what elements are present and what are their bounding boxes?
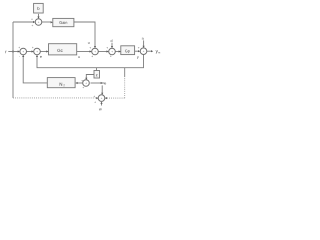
- sign + at S1 left: [18, 47, 20, 49]
- label y at feedback takeoff: [137, 56, 139, 59]
- arrowhead at e label: [101, 82, 103, 84]
- label y output: [156, 50, 158, 53]
- arrowhead into S1 bottom: [22, 55, 24, 57]
- sum junction B: [92, 48, 99, 55]
- arrowhead into B top: [94, 46, 96, 48]
- sign + at A left: [81, 80, 83, 82]
- arrowhead into E right: [105, 97, 107, 99]
- sign + inside sum D: [143, 51, 144, 52]
- arrowhead into Gp: [119, 50, 121, 52]
- sign + at T left: [31, 18, 33, 20]
- wire sum S1 to sum S2: [27, 51, 33, 53]
- label u after Gc: [78, 56, 79, 58]
- sign + at A bottom: [82, 87, 84, 89]
- arrowhead into S1 left: [18, 50, 20, 52]
- sign + inside sum T: [38, 21, 39, 22]
- sign + at B bottom: [91, 55, 93, 57]
- wire r input: [8, 51, 18, 53]
- wire r pickoff vertical: [12, 22, 14, 98]
- arrowhead into Gain: [51, 21, 53, 23]
- sign + at B left: [89, 47, 91, 49]
- label Gain in block: [59, 21, 67, 24]
- arrowhead into E top: [101, 93, 103, 95]
- wire dotted r to sum E: [13, 97, 97, 99]
- sign + at S2 left: [32, 47, 34, 49]
- sum junction S1: [20, 48, 27, 55]
- sign + at D left: [138, 47, 140, 49]
- arrowhead into C top: [111, 46, 113, 48]
- wire input into sum E from below: [101, 103, 103, 106]
- sign + at C bottom: [110, 55, 112, 57]
- wire n input into sum D: [143, 40, 145, 46]
- wire feedback sum D to sum S2: [37, 55, 144, 68]
- arrowhead into T top: [37, 17, 39, 19]
- block Gp plant: [121, 46, 135, 55]
- arrowhead into S2 bottom: [36, 55, 38, 57]
- wire e tap down to sum E: [101, 85, 103, 93]
- sign + at C left: [106, 47, 108, 49]
- label b in block: [38, 7, 40, 10]
- arrowhead into E left: [96, 97, 98, 99]
- arrowhead into sensor box right: [75, 82, 77, 84]
- wire box Gc to sum B: [77, 51, 91, 53]
- wire z box to sum A: [86, 75, 94, 79]
- node junction at r pickoff: [12, 50, 14, 52]
- wire sum C to box Gp: [115, 51, 120, 53]
- sum junction A: [83, 80, 90, 87]
- sign - at S1 bottom: [18, 56, 21, 58]
- label w below E: [99, 108, 102, 110]
- label Gm subscript: [63, 84, 64, 86]
- label near gain drop: [88, 42, 89, 44]
- wire dotted vertical to feedback line: [124, 77, 126, 98]
- sum junction T: [35, 19, 42, 26]
- wire sum A to sensor box: [76, 82, 82, 84]
- arrowhead into C left: [107, 50, 109, 52]
- label e right of A: [104, 83, 106, 85]
- sum junction S2: [34, 48, 41, 55]
- sign + inside sum E: [101, 98, 102, 99]
- block z: [94, 71, 100, 79]
- block b: [34, 3, 44, 13]
- sign + at E left: [93, 96, 95, 98]
- sum junction C: [109, 48, 116, 55]
- block Gm sensor: [47, 78, 75, 88]
- wire b box to sum T: [38, 14, 40, 17]
- label z in block: [96, 74, 98, 76]
- label Gp in block: [125, 50, 130, 53]
- wire sensor box to sum S1: [23, 56, 47, 83]
- arrowhead into E bottom: [100, 102, 102, 104]
- arrowhead into T left: [33, 21, 35, 23]
- wire box Gp to sum D: [135, 50, 139, 52]
- wire d input into sum C: [111, 43, 113, 47]
- label y output subscript: [158, 52, 160, 53]
- wire Gain box to sum B: [74, 22, 95, 47]
- sign + inside sum S2: [36, 51, 37, 52]
- label Gc in block: [57, 49, 62, 52]
- wire top row to sum T: [13, 21, 34, 23]
- sign + inside sum C: [111, 51, 112, 52]
- arrowhead into A top: [85, 78, 87, 80]
- block Gain: [53, 18, 74, 26]
- sign + inside sum B: [94, 51, 95, 52]
- block Gc controller: [49, 44, 77, 55]
- wire sum D to output y: [147, 50, 152, 52]
- label r input: [6, 51, 7, 53]
- wire solid stub above dotted drop: [124, 68, 126, 77]
- label d above C: [111, 39, 113, 42]
- arrowhead into S2 left: [32, 50, 34, 52]
- label n above D: [142, 38, 144, 40]
- arrowhead into D left: [138, 50, 140, 52]
- sign + inside sum S1: [23, 51, 24, 52]
- arrowhead into D top: [143, 46, 145, 48]
- sum junction D: [140, 48, 147, 55]
- wire sum B to sum C: [98, 51, 107, 53]
- sign + at E bottom: [94, 101, 96, 103]
- sign + inside sum A: [85, 82, 86, 83]
- sum junction E: [98, 95, 105, 102]
- label Gm in block: [60, 83, 62, 86]
- arrowhead into Gc: [46, 50, 48, 52]
- wire e input into sum A: [91, 82, 105, 84]
- wire sum T to Gain box: [42, 21, 52, 23]
- wire dotted from sum E right: [105, 97, 125, 99]
- sign + at T bottom: [32, 25, 34, 27]
- wire tap into z box: [96, 68, 98, 71]
- wire sum S2 to box Gc: [40, 51, 47, 53]
- arrowhead into B left: [90, 50, 92, 52]
- arrowhead at output y: [151, 50, 153, 52]
- label e after S2: [40, 56, 42, 58]
